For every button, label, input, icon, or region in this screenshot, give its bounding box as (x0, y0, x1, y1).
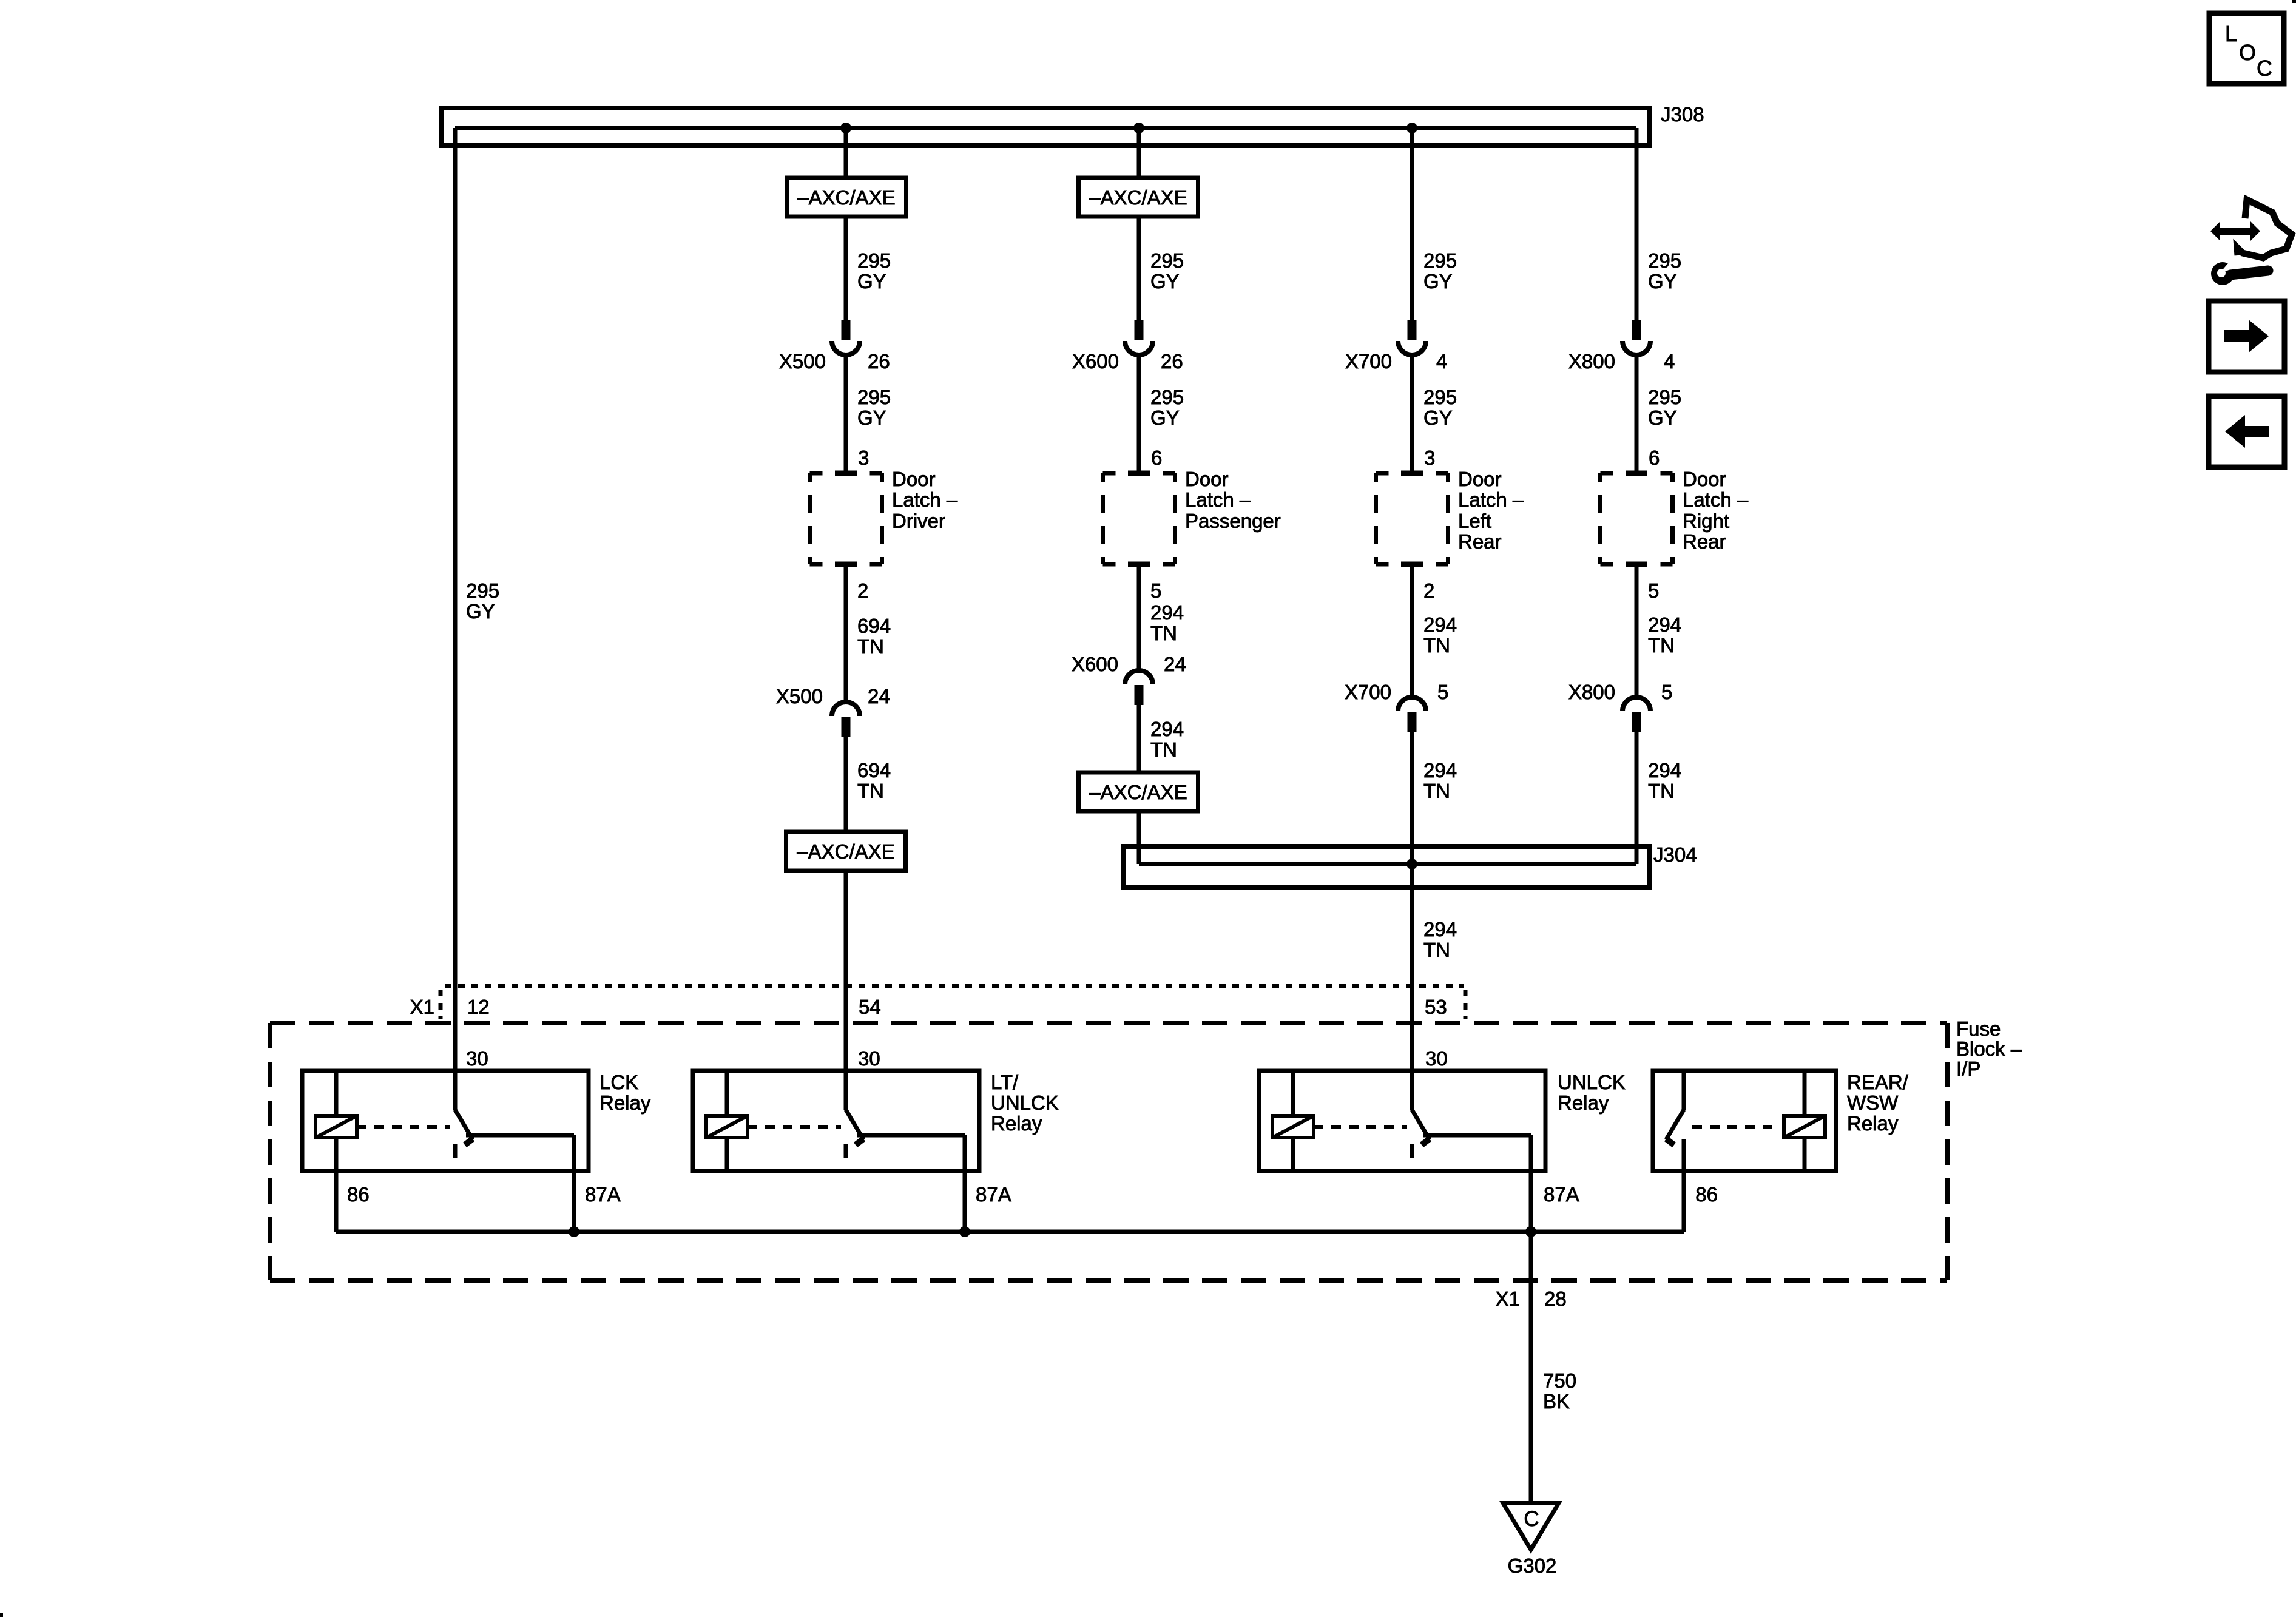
junction dot: LCK 87A on ground bus (569, 1226, 579, 1237)
door latch - driver (810, 473, 882, 564)
svg-text:294: 294 (1423, 918, 1457, 940)
svg-text:Left: Left (1458, 510, 1491, 532)
junction dot: driver branch tap on J308 (840, 123, 851, 133)
svg-text:G302: G302 (1508, 1555, 1557, 1577)
door latch - passenger (1103, 473, 1175, 564)
svg-text:X700: X700 (1345, 350, 1392, 373)
svg-text:295: 295 (1150, 249, 1184, 272)
svg-text:LT/: LT/ (991, 1071, 1019, 1093)
svg-text:86: 86 (347, 1183, 370, 1206)
in-line connector X600 pin 24 (1125, 670, 1153, 705)
wire: ground bus out through X1-28 to G302 (1529, 1232, 1533, 1504)
wire: door latch driver pin 2 to X500-24 (844, 564, 848, 702)
wire: relay ground bus (336, 1230, 1684, 1234)
wire: J308 to connector X700-4 (1410, 128, 1414, 320)
svg-text:GY: GY (466, 600, 495, 623)
svg-text:J304: J304 (1653, 843, 1697, 866)
wire: J304 inner bus line (1139, 862, 1636, 866)
wire: splice to connector X500-26 (844, 217, 848, 320)
svg-text:87A: 87A (585, 1183, 621, 1206)
wire: door latch right rear pin 5 to X800-5 (1635, 564, 1639, 697)
svg-text:Rear: Rear (1683, 530, 1726, 553)
icon: wrench (2211, 259, 2268, 285)
svg-text:294: 294 (1150, 718, 1184, 740)
svg-text:295: 295 (857, 386, 891, 408)
svg-text:C: C (1524, 1507, 1539, 1531)
junction block J304 bus bar outer box (1123, 846, 1649, 887)
svg-text:O: O (2239, 40, 2256, 65)
svg-text:X600: X600 (1072, 653, 1118, 675)
svg-text:24: 24 (868, 685, 890, 707)
connector X1 dotted boundary line (445, 984, 1464, 988)
svg-text:J308: J308 (1661, 103, 1704, 126)
svg-text:GY: GY (857, 270, 886, 292)
svg-text:Block –: Block – (1956, 1038, 2022, 1060)
svg-text:295: 295 (1150, 386, 1184, 408)
door latch - left rear (1376, 473, 1448, 564)
relay LT/UNLCK (lift/unlock relay) (693, 1071, 979, 1171)
svg-text:26: 26 (1161, 350, 1183, 373)
svg-text:3: 3 (858, 447, 869, 469)
svg-text:294: 294 (1423, 613, 1457, 636)
relay UNLCK (unlock relay) (1259, 1071, 1545, 1171)
svg-text:30: 30 (466, 1047, 488, 1070)
svg-text:I/P: I/P (1956, 1058, 1980, 1080)
svg-text:X1: X1 (1496, 1288, 1520, 1310)
icon: vehicle outline (2237, 200, 2292, 258)
svg-text:TN: TN (1648, 634, 1675, 657)
connector X1 dotted jog left (439, 990, 443, 1019)
wire: J308 to splice (passenger branch) (1137, 128, 1141, 178)
in-line connector X800 pin 4 (1622, 320, 1650, 355)
junction dot: UNLCK 87A on ground bus (1525, 1226, 1536, 1237)
svg-text:28: 28 (1544, 1288, 1567, 1310)
svg-text:5: 5 (1150, 579, 1161, 602)
svg-text:2: 2 (857, 579, 868, 602)
svg-text:X700: X700 (1345, 681, 1391, 703)
ground symbol G302 (1503, 1503, 1559, 1550)
svg-text:GY: GY (1423, 270, 1453, 292)
svg-text:295: 295 (1648, 249, 1681, 272)
svg-text:Rear: Rear (1458, 530, 1502, 553)
wire: J308 inner bus line (455, 126, 1636, 130)
svg-text:GY: GY (1648, 270, 1677, 292)
svg-text:TN: TN (1423, 634, 1450, 657)
svg-text:Relay: Relay (599, 1092, 651, 1114)
svg-text:295: 295 (466, 579, 499, 602)
svg-text:L: L (2225, 21, 2237, 46)
svg-text:REAR/: REAR/ (1847, 1071, 1909, 1093)
svg-text:GY: GY (857, 407, 886, 429)
in-line connector X500 pin 26 (832, 320, 860, 355)
svg-text:LCK: LCK (599, 1071, 638, 1093)
svg-text:30: 30 (1425, 1047, 1448, 1070)
svg-text:86: 86 (1695, 1183, 1718, 1206)
nav box: forward arrow (2209, 301, 2284, 372)
svg-text:BK: BK (1543, 1390, 1570, 1413)
svg-text:Door: Door (1185, 468, 1229, 490)
svg-text:X800: X800 (1568, 681, 1615, 703)
icon: vehicle service double-arrow (2210, 221, 2260, 241)
svg-text:Latch –: Latch – (892, 488, 958, 511)
svg-text:Passenger: Passenger (1185, 510, 1281, 532)
svg-text:294: 294 (1423, 759, 1457, 781)
svg-text:Latch –: Latch – (1185, 488, 1251, 511)
page mark top-right (2292, 0, 2296, 3)
svg-text:Latch –: Latch – (1683, 488, 1749, 511)
svg-text:X800: X800 (1568, 350, 1615, 373)
svg-text:Door: Door (892, 468, 936, 490)
svg-text:4: 4 (1664, 350, 1675, 373)
svg-text:30: 30 (858, 1047, 880, 1070)
splice -AXC/AXE (driver branch) (787, 178, 907, 217)
svg-text:Door: Door (1683, 468, 1726, 490)
svg-text:TN: TN (857, 780, 884, 802)
connector X1 dotted jog right (1464, 990, 1468, 1019)
svg-text:C: C (2257, 56, 2272, 81)
svg-text:694: 694 (857, 615, 891, 637)
wire: splice down to fuse block pin X1-54 (844, 871, 848, 1071)
svg-text:12: 12 (467, 996, 490, 1018)
relay LCK (lock relay) (302, 1071, 589, 1171)
svg-text:TN: TN (1150, 622, 1177, 644)
svg-text:X500: X500 (776, 685, 823, 707)
svg-text:GY: GY (1648, 407, 1677, 429)
svg-text:X600: X600 (1072, 350, 1119, 373)
svg-text:5: 5 (1661, 681, 1672, 703)
svg-text:295: 295 (1423, 249, 1457, 272)
svg-text:87A: 87A (1544, 1183, 1579, 1206)
wire: J308 to splice (driver branch) (844, 128, 848, 178)
in-line connector X800 pin 5 (1622, 697, 1650, 732)
wire: REAR/WSW relay pin 86 to ground bus (1682, 1171, 1686, 1232)
nav box: back arrow (2209, 396, 2284, 467)
splice -AXC/AXE (passenger branch) (1079, 178, 1198, 217)
svg-text:54: 54 (859, 996, 881, 1018)
junction dot: left rear wire tap on J304 (1406, 859, 1417, 869)
svg-text:Fuse: Fuse (1956, 1018, 2001, 1040)
svg-text:Relay: Relay (1847, 1112, 1899, 1135)
svg-text:GY: GY (1150, 270, 1180, 292)
svg-text:6: 6 (1649, 447, 1660, 469)
svg-text:24: 24 (1164, 653, 1186, 675)
junction dot: passenger branch tap on J308 (1133, 123, 1144, 133)
svg-text:6: 6 (1151, 447, 1162, 469)
svg-text:5: 5 (1648, 579, 1659, 602)
svg-text:GY: GY (1150, 407, 1180, 429)
wire: X600-26 to door latch passenger pin 6 (1137, 355, 1141, 473)
svg-text:TN: TN (1150, 738, 1177, 761)
svg-text:TN: TN (1423, 780, 1450, 802)
svg-text:X500: X500 (779, 350, 826, 373)
wire: left feed branch, J308 down to fuse block pin X1-12 (453, 128, 458, 1071)
svg-text:2: 2 (1423, 579, 1434, 602)
wire: X800-4 to door latch right rear pin 6 (1635, 355, 1639, 473)
svg-text:4: 4 (1436, 350, 1447, 373)
svg-text:295: 295 (1648, 386, 1681, 408)
svg-text:Latch –: Latch – (1458, 488, 1524, 511)
in-line connector X500 pin 24 (832, 702, 860, 737)
svg-text:Relay: Relay (1558, 1092, 1609, 1114)
wire: door latch left rear pin 2 to X700-5 (1410, 564, 1414, 697)
svg-text:TN: TN (1423, 939, 1450, 961)
svg-text:294: 294 (1150, 601, 1184, 624)
wire: splice to connector X600-26 (1137, 217, 1141, 320)
wire: LCK relay pin 87A to ground bus (572, 1171, 576, 1232)
in-line connector X700 pin 5 (1398, 697, 1426, 732)
svg-text:TN: TN (857, 635, 884, 658)
svg-text:26: 26 (868, 350, 890, 373)
splice -AXC/AXE (driver return) (786, 832, 906, 871)
wire: X700-5 down through J304 to fuse block pin X1-53 (1410, 732, 1414, 1071)
wire: UNLCK relay pin 87A down to ground bus junction (1529, 1171, 1533, 1232)
in-line connector X700 pin 4 (1398, 320, 1426, 355)
in-line connector X600 pin 26 (1125, 320, 1153, 355)
junction block J308 bus bar outer box (441, 108, 1649, 146)
svg-text:3: 3 (1424, 447, 1435, 469)
svg-text:UNLCK: UNLCK (991, 1092, 1059, 1114)
wire: X700-4 to door latch left rear pin 3 (1410, 355, 1414, 473)
svg-text:Door: Door (1458, 468, 1502, 490)
svg-text:87A: 87A (976, 1183, 1011, 1206)
wire: splice down to J304 (1137, 811, 1141, 864)
relay REAR/WSW (1653, 1071, 1836, 1171)
svg-text:GY: GY (1423, 407, 1453, 429)
splice -AXC/AXE (passenger return) (1079, 772, 1198, 811)
page mark bottom-left (0, 1613, 3, 1617)
wire: X500-24 to splice (844, 737, 848, 831)
wire: X800-5 down to J304 (1635, 732, 1639, 864)
wire: X500-26 to door latch driver pin 3 (844, 355, 848, 473)
svg-text:53: 53 (1425, 996, 1447, 1018)
wire: LCK relay pin 86 to ground bus (334, 1171, 339, 1232)
svg-text:294: 294 (1648, 759, 1681, 781)
LOC reference box (2209, 13, 2284, 84)
wire: X600-24 to splice (1137, 705, 1141, 772)
svg-text:Relay: Relay (991, 1112, 1042, 1135)
fuse block I/P dashed enclosure (270, 1023, 1947, 1280)
svg-text:294: 294 (1648, 613, 1681, 636)
door latch - right rear (1601, 473, 1673, 564)
wire: right end branch of J308 down to connector X800-4 (1635, 128, 1639, 320)
svg-text:Right: Right (1683, 510, 1729, 532)
svg-text:UNLCK: UNLCK (1558, 1071, 1626, 1093)
junction dot: LT/UNLCK 87A on ground bus (959, 1226, 970, 1237)
svg-text:750: 750 (1543, 1369, 1576, 1392)
wire: door latch passenger pin 5 to X600-24 (1137, 564, 1141, 670)
junction dot: left rear branch tap on J308 (1406, 123, 1417, 133)
svg-text:295: 295 (857, 249, 891, 272)
svg-text:694: 694 (857, 759, 891, 781)
svg-text:Driver: Driver (892, 510, 945, 532)
svg-text:WSW: WSW (1847, 1092, 1899, 1114)
svg-text:295: 295 (1423, 386, 1457, 408)
svg-text:5: 5 (1437, 681, 1448, 703)
wire: LT/UNLCK relay pin 87A to ground bus (963, 1171, 967, 1232)
svg-text:TN: TN (1648, 780, 1675, 802)
svg-text:X1: X1 (410, 996, 434, 1018)
